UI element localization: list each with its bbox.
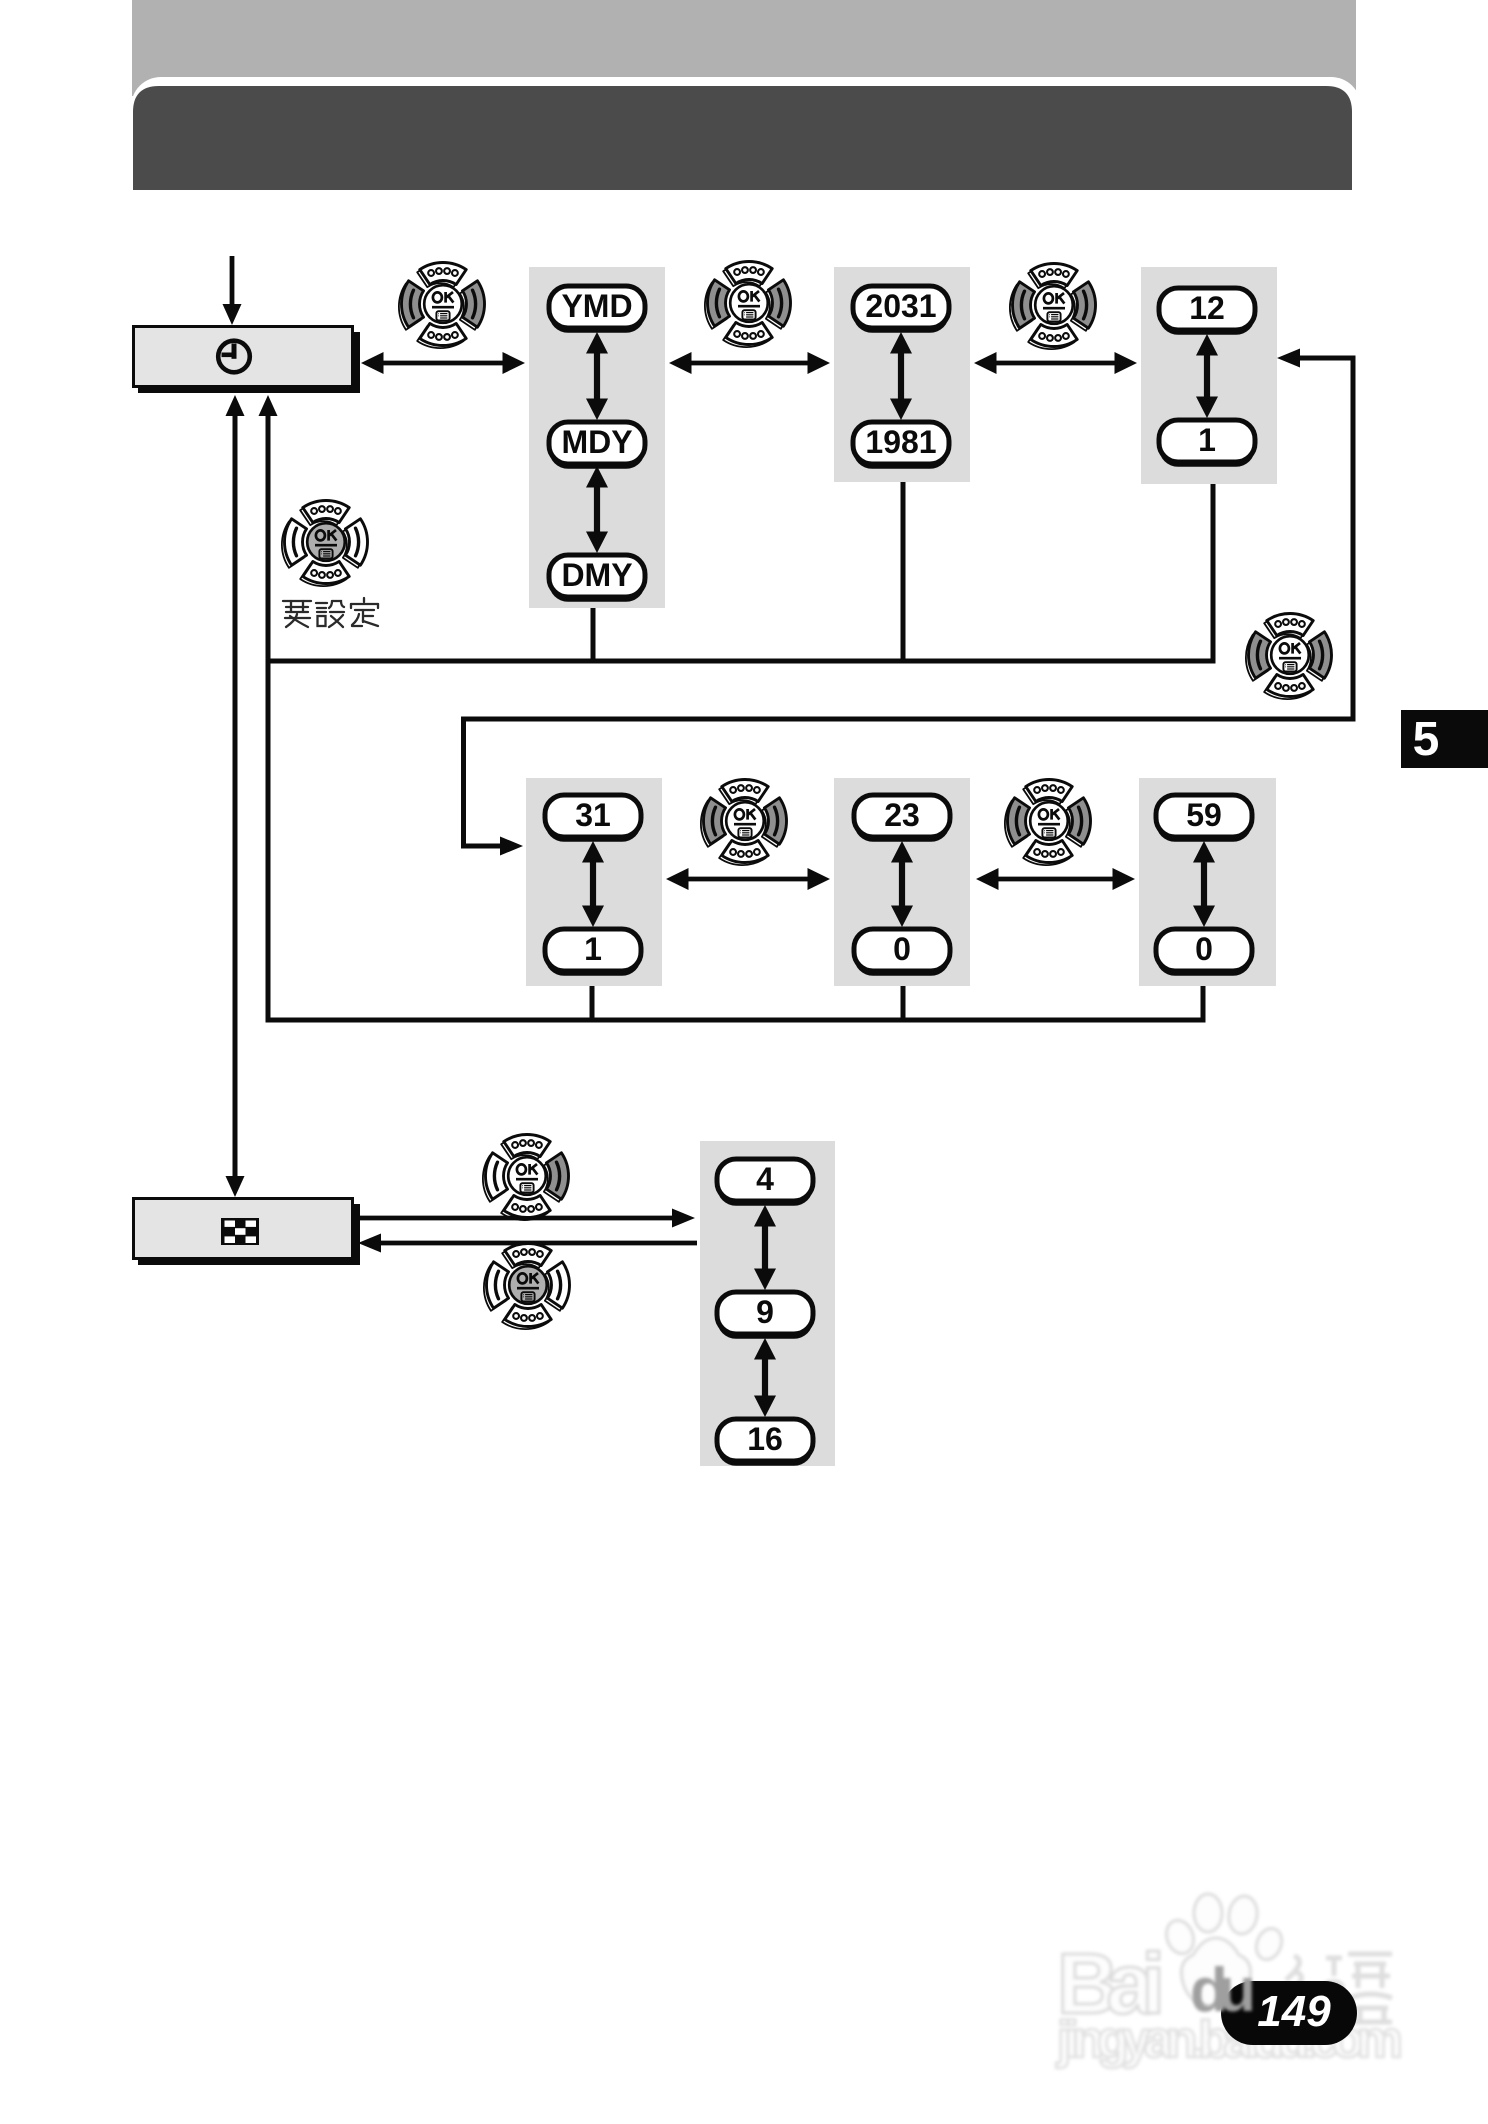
double arrow 2031-1981 — [890, 332, 912, 420]
double arrow 59-0 — [1193, 841, 1215, 927]
pill YMD at (549,286) — [549, 286, 645, 333]
wire: day column drop — [590, 986, 595, 1020]
double arrow clock-format — [361, 352, 525, 374]
svg-text:1: 1 — [1198, 422, 1216, 458]
wire: return line clock box to collector 2 (x=268) — [259, 395, 278, 1020]
pill DMY at (549,555) — [549, 555, 645, 602]
svg-text:0: 0 — [893, 931, 911, 967]
wire: feedback loop right side — [464, 349, 1354, 856]
double arrow 4-9 — [754, 1205, 776, 1290]
wire: frames column back to card box (y=1243) — [358, 1234, 697, 1253]
pill 1 at (545,929) — [545, 929, 641, 976]
ok-pad P3 left/right — [1010, 263, 1096, 349]
wire: minute column drop — [1201, 986, 1206, 1018]
column: minute — [1139, 778, 1276, 986]
double arrow year-month — [974, 352, 1137, 374]
pill 12 at (1159,288) — [1159, 288, 1255, 335]
svg-text:0: 0 — [1195, 931, 1213, 967]
column: hour — [834, 778, 970, 986]
column: month — [1141, 267, 1277, 484]
svg-text:du: du — [1190, 1956, 1256, 2025]
svg-text:31: 31 — [575, 797, 611, 833]
wire: left return line clock box to card box (x=235) — [226, 395, 245, 1197]
box: clock menu item — [134, 327, 361, 394]
svg-text:23: 23 — [884, 797, 920, 833]
pill 9 at (717,1292) — [717, 1292, 813, 1339]
pill 31 at (545,795) — [545, 795, 641, 842]
svg-text:12: 12 — [1189, 290, 1225, 326]
svg-text:5: 5 — [1413, 713, 1440, 766]
header dark title bar — [133, 86, 1352, 190]
pill 59 at (1156,795) — [1156, 795, 1252, 842]
double arrow day-hour — [666, 868, 830, 890]
ok-pad P7 left/right — [1005, 779, 1091, 865]
watermark du over pill — [1190, 1956, 1256, 2025]
page number pill 149 — [1221, 1981, 1357, 2045]
ok-pad P1 left/right — [399, 262, 485, 348]
svg-text:1981: 1981 — [865, 424, 936, 460]
double arrow 9-16 — [754, 1338, 776, 1417]
ok-pad P2 left/right — [705, 261, 791, 347]
double arrow format-year — [669, 352, 830, 374]
icon: clock — [218, 341, 250, 373]
label: 要設定 (setting required) — [283, 601, 311, 627]
svg-text:16: 16 — [747, 1421, 783, 1457]
svg-text:1: 1 — [584, 931, 602, 967]
double arrow MDY-DMY — [586, 466, 608, 553]
svg-text:MDY: MDY — [561, 424, 632, 460]
pill 1 at (1159,420) — [1159, 420, 1255, 467]
pill MDY at (549,422) — [549, 422, 645, 469]
double arrow 12-1 — [1196, 334, 1218, 418]
ok-pad P4 press-OK — [282, 500, 368, 586]
svg-text:YMD: YMD — [561, 288, 632, 324]
pill 1981 at (853,422) — [853, 422, 949, 469]
ok-pad P5 left/right — [1246, 613, 1332, 699]
pill 16 at (717,1419) — [717, 1419, 813, 1466]
pill 4 at (717,1159) — [717, 1159, 813, 1206]
double arrow 23-0 — [891, 841, 913, 927]
wire: hour column drop — [901, 986, 906, 1020]
wire: entry arrow into clock box — [223, 256, 242, 325]
wire: collector 1 horizontal (y=661) — [266, 659, 1216, 664]
chapter tab 5 — [1401, 710, 1488, 768]
svg-text:4: 4 — [756, 1161, 774, 1197]
top gray band — [132, 0, 1356, 96]
pill 2031 at (853,286) — [853, 286, 949, 333]
svg-text:2031: 2031 — [865, 288, 936, 324]
wire: DMY column drop — [591, 608, 596, 661]
double arrow YMD-MDY — [586, 332, 608, 420]
double arrow 31-1 — [582, 841, 604, 927]
box: card setup menu item — [134, 1199, 361, 1266]
svg-text:149: 149 — [1257, 1987, 1331, 2036]
wire: collector 2 horizontal (y=1020) — [266, 1018, 1206, 1023]
svg-text:9: 9 — [756, 1294, 774, 1330]
pill 23 at (854,795) — [854, 795, 950, 842]
page number 149 — [1257, 1987, 1331, 2036]
column: year — [834, 267, 970, 482]
double arrow hour-minute — [976, 868, 1135, 890]
column: date format (YMD/MDY/DMY) — [529, 267, 665, 608]
svg-text:59: 59 — [1186, 797, 1222, 833]
header white outline — [131, 77, 1361, 190]
pill 0 at (1156,929) — [1156, 929, 1252, 976]
wire: card box to frames column (y=1218) — [352, 1209, 695, 1228]
svg-text:DMY: DMY — [561, 557, 632, 593]
column: frames 4/9/16 — [700, 1141, 835, 1466]
wire: month column drop — [1211, 484, 1216, 661]
icon: checkerboard — [221, 1218, 259, 1245]
watermark baidu logo — [1056, 1894, 1403, 2069]
ok-pad P8 right — [483, 1134, 569, 1220]
ok-pad P9 press-OK — [484, 1243, 570, 1329]
pill 0 at (854,929) — [854, 929, 950, 976]
ok-pad P6 left/right — [701, 779, 787, 865]
watermark jingyan chars — [1286, 1954, 1392, 2022]
wire: year column drop — [901, 482, 906, 661]
column: day — [526, 778, 662, 986]
